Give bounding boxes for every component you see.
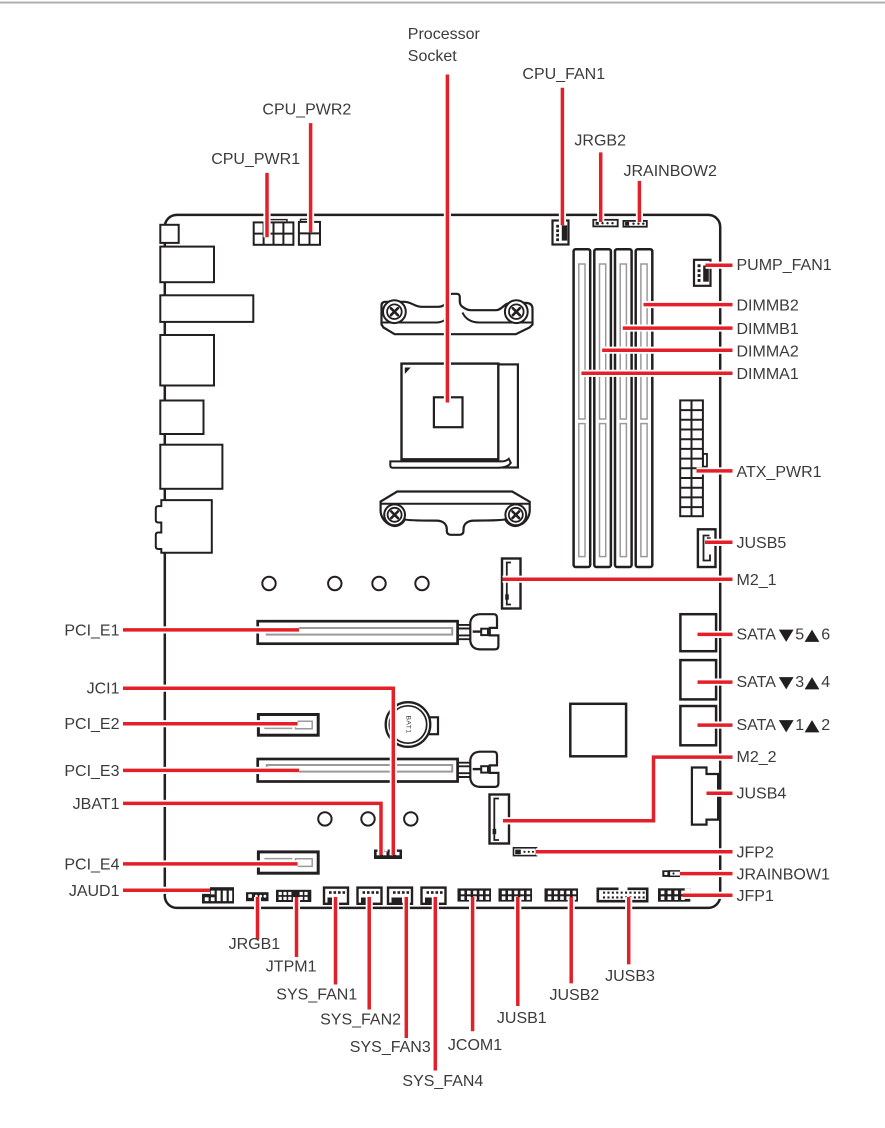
connector ATX_PWR1: [680, 400, 703, 516]
svg-text:CPU_PWR2: CPU_PWR2: [262, 101, 351, 118]
connector M2_2: [490, 795, 510, 844]
screw bottom-left: [384, 504, 405, 525]
svg-text:JRGB2: JRGB2: [574, 133, 626, 150]
io port 6: [160, 445, 222, 489]
connector JCI1 JBAT1 pins: [374, 850, 402, 860]
connector SYS_FAN4: [422, 888, 446, 904]
slot PCI_E4: [258, 852, 318, 873]
io port 4: [160, 335, 214, 386]
socket corner triangle: [405, 368, 411, 375]
slot PCI_E3 latch: [458, 752, 499, 787]
svg-text:JFP1: JFP1: [737, 888, 774, 905]
sata ports SATA34: [680, 660, 716, 699]
connector SYS_FAN2: [358, 888, 382, 904]
io port 3 wide: [160, 295, 253, 322]
svg-text:M2_2: M2_2: [737, 749, 777, 766]
svg-text:PCI_E3: PCI_E3: [64, 763, 119, 780]
socket lever arm: [390, 459, 511, 468]
svg-text:JTPM1: JTPM1: [266, 959, 317, 976]
slot PCI_E2: [258, 715, 318, 736]
svg-text:Socket: Socket: [408, 48, 457, 65]
connector JRGB2: [593, 220, 617, 227]
sata ports SATA12: [680, 706, 716, 745]
svg-text:SYS_FAN4: SYS_FAN4: [402, 1073, 483, 1090]
svg-text:ATX_PWR1: ATX_PWR1: [737, 464, 822, 481]
svg-text:JCI1: JCI1: [87, 681, 120, 698]
slot PCI_E1 latch: [458, 614, 499, 649]
mounting hole row2 c3: [404, 812, 417, 825]
page top rule: [0, 2, 885, 4]
mounting hole row1 c1: [262, 577, 275, 590]
svg-text:JRAINBOW1: JRAINBOW1: [737, 867, 830, 884]
svg-text:SYS_FAN2: SYS_FAN2: [320, 1012, 401, 1029]
mounting hole row2 c1: [318, 812, 331, 825]
svg-text:JUSB4: JUSB4: [737, 786, 787, 803]
label SATA56: [737, 627, 831, 644]
cpu bottom retention bracket: [381, 492, 530, 535]
chipset: [570, 704, 626, 757]
svg-text:CPU_FAN1: CPU_FAN1: [522, 66, 605, 83]
screw top-left: [383, 300, 406, 323]
socket center square: [434, 397, 463, 427]
svg-text:BAT1: BAT1: [405, 715, 412, 733]
red callout lines: [123, 75, 733, 1071]
svg-text:4: 4: [821, 674, 830, 691]
svg-text:PCI_E2: PCI_E2: [64, 716, 119, 733]
svg-text:M2_1: M2_1: [737, 572, 777, 589]
svg-text:JCOM1: JCOM1: [448, 1037, 502, 1054]
svg-text:DIMMA2: DIMMA2: [737, 344, 799, 361]
svg-text:6: 6: [821, 627, 830, 644]
mounting hole row1 c3: [372, 577, 385, 590]
svg-text:JAUD1: JAUD1: [69, 883, 120, 900]
svg-text:DIMMA1: DIMMA1: [737, 366, 799, 383]
svg-text:PCI_E4: PCI_E4: [64, 856, 119, 873]
svg-text:SYS_FAN3: SYS_FAN3: [350, 1039, 431, 1056]
svg-text:1: 1: [795, 717, 804, 734]
svg-text:SATA: SATA: [737, 627, 777, 644]
svg-text:JUSB2: JUSB2: [550, 987, 600, 1004]
motherboard outline: [165, 215, 720, 908]
connector M2_1: [502, 559, 521, 609]
red callout white casings: [123, 75, 733, 1071]
svg-text:JRGB1: JRGB1: [229, 936, 281, 953]
battery BAT1 clip: [428, 717, 438, 734]
io port 2: [160, 247, 214, 283]
connector JRAINBOW1: [662, 870, 686, 877]
connector JRGB1: [246, 892, 269, 901]
screw top-right: [505, 300, 528, 323]
cpu top retention bracket: [382, 294, 533, 334]
svg-text:DIMMB1: DIMMB1: [737, 321, 799, 338]
connector JUSB5: [698, 529, 716, 567]
svg-text:JUSB5: JUSB5: [737, 535, 787, 552]
DIMM slot DIMMB1: [615, 249, 632, 567]
svg-text:CPU_PWR1: CPU_PWR1: [211, 151, 300, 168]
DIMM slot DIMMA1: [574, 249, 591, 567]
svg-text:JRAINBOW2: JRAINBOW2: [624, 163, 717, 180]
io port small square: [160, 225, 178, 243]
svg-text:JBAT1: JBAT1: [73, 796, 120, 813]
io audio port: [156, 500, 212, 553]
connector CPU_PWR1 latch: [268, 220, 287, 223]
svg-text:JUSB3: JUSB3: [605, 968, 655, 985]
connector JUSB3: [598, 889, 647, 901]
connector JUSB2: [545, 888, 579, 901]
cpu socket lever bar: [498, 364, 518, 467]
svg-text:2: 2: [821, 717, 830, 734]
svg-text:DIMMB2: DIMMB2: [737, 298, 799, 315]
connector JAUD1: [202, 887, 234, 903]
slot PCI_E3: [258, 759, 458, 782]
connector ATX_PWR1 latch: [703, 454, 707, 467]
svg-text:3: 3: [795, 674, 804, 691]
connector CPU_FAN1: [553, 221, 569, 245]
connector SYS_FAN1: [324, 888, 348, 904]
connector CPU_PWR2: [299, 222, 320, 245]
connector CPU_PWR1: [254, 222, 294, 244]
connector JCOM1: [458, 888, 492, 901]
io port 5: [160, 401, 203, 435]
connector CPU_PWR2 latch: [301, 219, 310, 222]
mounting hole row1 c2: [328, 577, 341, 590]
battery BAT1: [386, 702, 431, 747]
DIMM slot DIMMB2: [636, 249, 653, 567]
connector JRAINBOW2: [623, 221, 646, 227]
label SATA12: [737, 717, 831, 734]
mounting hole row2 c2: [361, 812, 374, 825]
svg-text:PCI_E1: PCI_E1: [64, 623, 119, 640]
svg-text:PUMP_FAN1: PUMP_FAN1: [737, 257, 832, 274]
svg-text:5: 5: [795, 627, 804, 644]
svg-text:JUSB1: JUSB1: [497, 1010, 547, 1027]
connector SYS_FAN3: [388, 888, 412, 904]
DIMM slot DIMMA2: [594, 249, 611, 567]
label SATA34: [737, 674, 831, 691]
svg-text:SYS_FAN1: SYS_FAN1: [276, 987, 357, 1004]
connector PUMP_FAN1: [694, 260, 711, 286]
connector JUSB1: [499, 888, 533, 901]
svg-text:SATA: SATA: [737, 674, 777, 691]
sata ports SATA56: [680, 614, 716, 651]
screw bottom-right: [505, 504, 526, 525]
connector JFP2: [514, 848, 537, 856]
cpu socket square: [402, 364, 499, 460]
connector JTPM1: [276, 890, 311, 902]
connector JFP1: [658, 888, 690, 901]
slot PCI_E1: [258, 621, 458, 644]
connector JUSB4: [692, 768, 718, 825]
svg-text:Processor: Processor: [408, 26, 481, 43]
svg-text:JFP2: JFP2: [737, 845, 774, 862]
mounting hole row1 c4: [415, 577, 428, 590]
svg-text:SATA: SATA: [737, 717, 777, 734]
